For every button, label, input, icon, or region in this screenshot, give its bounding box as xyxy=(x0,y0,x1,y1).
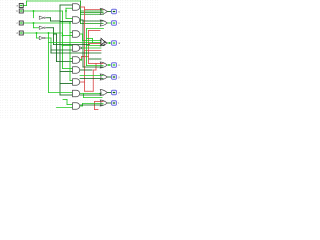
wire xyxy=(81,103,104,106)
or-gate O5 xyxy=(104,75,108,80)
wire xyxy=(80,57,83,61)
wire xyxy=(58,5,61,95)
wire xyxy=(108,10,112,13)
wire xyxy=(63,67,73,70)
wire xyxy=(66,7,73,10)
wire xyxy=(24,31,63,34)
wire xyxy=(87,44,104,47)
wire xyxy=(108,75,112,78)
wire xyxy=(89,29,101,32)
wire xyxy=(61,33,64,36)
junction xyxy=(33,10,35,12)
wire xyxy=(23,4,27,7)
wire xyxy=(51,19,61,22)
wire xyxy=(81,9,104,12)
wire xyxy=(80,46,102,49)
output pin u xyxy=(112,9,117,14)
wire xyxy=(70,79,73,82)
wire xyxy=(32,23,35,28)
wire xyxy=(81,11,104,14)
wire xyxy=(95,100,104,103)
wire xyxy=(49,41,93,44)
wire xyxy=(94,68,97,71)
wire xyxy=(64,11,67,19)
wire xyxy=(85,90,94,93)
or-gate O7 xyxy=(104,101,108,106)
wire xyxy=(49,46,52,54)
or-gate O4 xyxy=(104,63,108,68)
or-gate O3 xyxy=(104,41,108,46)
wire xyxy=(27,0,81,3)
and-gate A8 xyxy=(73,90,80,97)
wire xyxy=(49,18,52,21)
and-gate A7 xyxy=(73,79,80,86)
junction xyxy=(109,42,111,44)
wire xyxy=(60,82,73,85)
wire xyxy=(80,18,84,21)
wire xyxy=(49,38,52,46)
wire xyxy=(93,41,104,44)
wire xyxy=(57,60,73,63)
wire xyxy=(63,34,73,37)
wire xyxy=(108,91,112,94)
wire xyxy=(93,102,96,110)
wire xyxy=(83,7,86,82)
wire xyxy=(35,33,38,38)
or-gate O2 xyxy=(104,21,108,26)
wire xyxy=(61,11,64,69)
junction xyxy=(62,45,64,47)
wire xyxy=(49,91,73,94)
wire xyxy=(80,80,85,83)
junction xyxy=(62,35,64,37)
wire xyxy=(80,104,83,107)
wire xyxy=(51,51,101,54)
input pin b xyxy=(19,9,23,13)
wire xyxy=(54,32,57,35)
wire xyxy=(47,33,50,93)
junction xyxy=(65,10,67,12)
wire xyxy=(108,101,112,104)
wire xyxy=(79,1,82,24)
wire xyxy=(108,63,112,66)
wire xyxy=(63,44,73,47)
output pin w xyxy=(112,41,117,46)
and-gate A9 xyxy=(73,103,80,110)
junction xyxy=(108,64,110,66)
wire xyxy=(82,55,89,58)
wire xyxy=(64,8,67,11)
or-gate O1 xyxy=(104,9,108,14)
not-gate N2 xyxy=(39,26,44,29)
wire xyxy=(81,93,104,96)
wire xyxy=(24,9,63,12)
wire xyxy=(92,70,95,91)
wire xyxy=(52,28,55,45)
wire xyxy=(54,43,90,46)
wire xyxy=(47,36,52,39)
wire xyxy=(82,94,85,98)
wire xyxy=(108,21,112,24)
output pin x xyxy=(112,63,117,68)
not-gate N3 xyxy=(39,36,44,39)
wire xyxy=(80,68,93,71)
wire xyxy=(87,64,104,67)
wire xyxy=(60,20,73,23)
junction xyxy=(100,9,102,11)
input pin c xyxy=(19,21,23,25)
junction xyxy=(48,32,50,34)
or-gate O6 xyxy=(104,90,108,95)
wire xyxy=(80,92,101,95)
wire xyxy=(37,36,40,39)
wire xyxy=(108,41,112,44)
wire xyxy=(89,62,97,65)
and-gate A3 xyxy=(73,31,80,38)
wire xyxy=(87,27,104,30)
wire xyxy=(80,77,104,80)
output pin v xyxy=(112,21,117,26)
wire xyxy=(51,48,73,51)
wire xyxy=(60,3,73,6)
wire xyxy=(80,32,83,35)
wire xyxy=(80,58,82,61)
wire xyxy=(83,39,104,42)
wire xyxy=(60,70,73,73)
junction xyxy=(36,32,38,34)
wire xyxy=(32,11,35,18)
wire xyxy=(94,64,97,71)
wire xyxy=(81,20,84,67)
wire xyxy=(57,106,73,109)
and-gate A1 xyxy=(73,4,80,11)
junction xyxy=(69,22,71,24)
wire xyxy=(89,57,101,60)
wire xyxy=(68,23,71,81)
wire xyxy=(67,103,73,106)
wire xyxy=(81,104,84,107)
wire xyxy=(87,31,90,64)
and-gate A6 xyxy=(73,67,80,74)
wire xyxy=(96,62,104,65)
wire xyxy=(65,100,68,105)
input pin d xyxy=(19,31,23,35)
wire xyxy=(47,16,51,19)
output pin t xyxy=(112,101,117,106)
mouse cursor xyxy=(101,38,106,46)
wire xyxy=(47,26,54,29)
wire xyxy=(80,74,104,77)
not-gate N1 xyxy=(39,16,44,19)
wire xyxy=(95,108,99,111)
wire xyxy=(87,37,93,40)
wire xyxy=(24,21,71,24)
wire xyxy=(85,49,102,52)
wire xyxy=(89,42,104,45)
wire xyxy=(83,82,86,91)
wire xyxy=(55,34,58,62)
junction xyxy=(80,47,82,49)
wire xyxy=(25,1,28,6)
wire xyxy=(83,19,104,22)
wire xyxy=(83,102,104,105)
junction xyxy=(33,22,35,24)
and-gate A4 xyxy=(73,45,80,52)
junction xyxy=(100,93,102,95)
wire xyxy=(81,13,104,16)
wire xyxy=(81,34,84,41)
wire xyxy=(34,26,40,29)
wire xyxy=(70,57,73,60)
wire xyxy=(84,96,103,99)
and-gate A2 xyxy=(73,17,80,24)
junction xyxy=(80,59,82,61)
wire xyxy=(80,5,85,8)
wire xyxy=(85,8,104,11)
and-gate A5 xyxy=(73,57,80,64)
input pin a xyxy=(19,4,23,8)
wire xyxy=(70,31,73,34)
wire xyxy=(60,93,73,96)
grid background xyxy=(0,0,160,120)
wire xyxy=(81,22,104,25)
output pin z xyxy=(112,90,117,95)
wire xyxy=(83,65,104,68)
wire xyxy=(91,39,94,43)
wire xyxy=(66,17,73,20)
output pin y xyxy=(112,75,117,80)
wire xyxy=(63,98,67,101)
wire xyxy=(85,29,88,66)
